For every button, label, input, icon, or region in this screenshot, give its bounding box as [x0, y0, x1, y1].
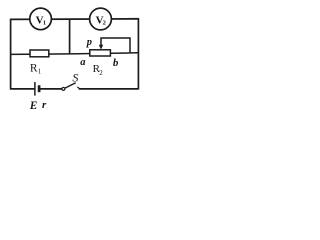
svg-text:E: E — [29, 100, 38, 112]
voltmeter V1 — [30, 8, 52, 30]
rheostat slider wire p with down arrow — [99, 38, 130, 53]
battery long plate — [34, 82, 36, 96]
svg-text:2: 2 — [99, 69, 103, 77]
background — [0, 0, 147, 113]
wire junction vertical between V1 and V2 down to node between R1 and R2 — [69, 19, 71, 54]
wire right vertical — [137, 18, 139, 89]
switch right contact stub — [77, 87, 79, 89]
svg-text:a: a — [80, 57, 85, 68]
switch S pivot circle — [62, 87, 65, 90]
wire battery to switch — [39, 88, 62, 90]
wire middle horizontal — [11, 53, 139, 55]
svg-text:2: 2 — [103, 19, 106, 26]
label R2 — [93, 63, 104, 77]
svg-text:1: 1 — [38, 68, 42, 76]
wire switch to bottom right — [79, 88, 139, 90]
label R1 — [30, 62, 42, 75]
resistor R1 (box) — [30, 50, 49, 57]
svg-text:1: 1 — [43, 19, 46, 26]
wire bottom left to battery — [11, 88, 35, 90]
svg-text:b: b — [113, 57, 119, 69]
wire top horizontal — [11, 18, 139, 21]
svg-text:R: R — [30, 62, 38, 74]
battery short thick plate — [38, 85, 41, 92]
resistor R2 rheostat (box) — [90, 50, 111, 56]
wire left vertical — [10, 19, 12, 90]
svg-text:S: S — [72, 71, 78, 85]
svg-text:p: p — [86, 37, 92, 48]
voltmeter V2 — [90, 8, 112, 30]
svg-text:r: r — [42, 99, 47, 111]
switch blade — [65, 83, 76, 88]
